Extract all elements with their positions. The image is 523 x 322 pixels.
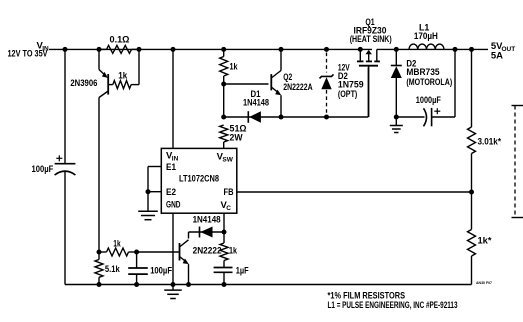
svg-text:1µF: 1µF	[236, 265, 249, 276]
svg-text:1N4148: 1N4148	[243, 98, 269, 109]
svg-text:0.1Ω: 0.1Ω	[110, 35, 130, 45]
svg-text:3.01k*: 3.01k*	[478, 137, 502, 148]
svg-text:170µH: 170µH	[414, 31, 438, 42]
svg-text:2W: 2W	[230, 133, 243, 144]
svg-text:SW: SW	[222, 156, 233, 163]
svg-text:C: C	[226, 205, 231, 212]
svg-text:L1 = PULSE ENGINEERING, INC #P: L1 = PULSE ENGINEERING, INC #PE-92113	[328, 300, 458, 311]
svg-text:LT1072CN8: LT1072CN8	[179, 174, 219, 185]
svg-text:(OPT): (OPT)	[338, 89, 357, 100]
svg-text:AN30 F07: AN30 F07	[476, 281, 492, 285]
svg-text:1000µF: 1000µF	[416, 95, 441, 106]
svg-text:(MOTOROLA): (MOTOROLA)	[406, 77, 452, 88]
svg-text:100µF: 100µF	[32, 164, 54, 175]
svg-text:GND: GND	[166, 200, 181, 211]
svg-text:1k: 1k	[118, 70, 128, 80]
svg-text:1k: 1k	[230, 61, 239, 71]
svg-text:(HEAT SINK): (HEAT SINK)	[350, 34, 392, 45]
svg-text:2N2222A: 2N2222A	[283, 82, 312, 93]
svg-text:12V TO 35V: 12V TO 35V	[8, 49, 48, 59]
svg-text:1k: 1k	[229, 246, 238, 256]
svg-text:E2: E2	[166, 187, 176, 198]
svg-text:1k*: 1k*	[478, 236, 492, 247]
svg-text:2N2222: 2N2222	[193, 246, 222, 257]
svg-text:5.1k: 5.1k	[105, 264, 120, 275]
svg-text:1N4148: 1N4148	[193, 215, 221, 226]
svg-text:5A: 5A	[491, 50, 503, 61]
svg-text:OUT: OUT	[502, 46, 516, 53]
svg-text:1k: 1k	[113, 239, 121, 249]
svg-text:2N3906: 2N3906	[70, 78, 97, 89]
svg-text:FB: FB	[224, 187, 234, 198]
svg-text:100µF: 100µF	[150, 265, 172, 276]
svg-text:E1: E1	[166, 162, 177, 173]
